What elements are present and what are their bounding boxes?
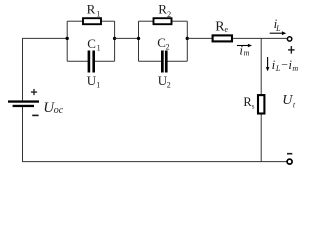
label U_oc bbox=[43, 100, 64, 116]
wire R2 top branch right stub bbox=[172, 20, 187, 22]
current arrow i_L - i_m (downward) bbox=[266, 57, 270, 71]
battery U_oc bbox=[8, 100, 39, 107]
label Re bbox=[215, 19, 228, 34]
battery minus sign bbox=[32, 115, 38, 117]
svg-text:m: m bbox=[292, 64, 298, 73]
svg-text:C: C bbox=[87, 36, 96, 51]
wire C1 bottom branch left stub bbox=[67, 60, 88, 62]
label Rs bbox=[243, 95, 254, 111]
svg-text:U: U bbox=[87, 73, 97, 88]
label i_m bbox=[239, 42, 249, 57]
node: junction dot right of RC group 2 bbox=[186, 37, 189, 40]
resistor R1 bbox=[83, 18, 101, 24]
terminal minus sign bbox=[287, 153, 292, 155]
label U_t bbox=[282, 93, 296, 109]
svg-text:R: R bbox=[158, 1, 167, 16]
battery plus sign bbox=[31, 89, 37, 95]
label i_L bbox=[274, 16, 282, 33]
svg-text:oc: oc bbox=[54, 105, 64, 116]
positive terminal circle bbox=[287, 37, 291, 41]
svg-text:1: 1 bbox=[96, 10, 100, 19]
svg-text:R: R bbox=[87, 1, 96, 16]
wire R1 top branch right stub bbox=[102, 20, 115, 22]
label U2 bbox=[158, 73, 171, 90]
RC group 2 right side bbox=[186, 21, 188, 61]
svg-text:e: e bbox=[225, 25, 229, 34]
wire top-left: main wire from left rail to RC group 1 bbox=[22, 37, 67, 39]
negative terminal circle bbox=[287, 159, 292, 164]
wire C1 bottom branch right stub bbox=[95, 60, 115, 62]
label R1 bbox=[87, 1, 101, 18]
svg-text:1: 1 bbox=[97, 43, 101, 52]
label C1 bbox=[87, 36, 100, 53]
resistor Rs bbox=[258, 95, 264, 113]
resistor Re bbox=[213, 35, 232, 41]
svg-text:1: 1 bbox=[96, 80, 100, 89]
terminal plus sign bbox=[288, 46, 295, 54]
label i_L - i_m bbox=[272, 57, 299, 73]
svg-text:2: 2 bbox=[167, 81, 171, 90]
wire R2 top branch left stub bbox=[139, 20, 154, 22]
svg-text:2: 2 bbox=[166, 43, 170, 52]
capacitor C2 bbox=[161, 51, 168, 73]
wire C2 bottom branch right stub bbox=[168, 60, 188, 62]
node: junction dot right of RC group 1 bbox=[113, 37, 116, 40]
svg-text:s: s bbox=[252, 103, 255, 111]
wire bottom rail bbox=[22, 161, 287, 163]
wire between RC group 2 and Re bbox=[187, 37, 211, 39]
label R2 bbox=[158, 1, 171, 19]
svg-text:C: C bbox=[157, 35, 166, 50]
RC group 2 left side bbox=[138, 21, 140, 61]
wire left rail lower: from battery bottom plate down to bottom wire bbox=[22, 107, 24, 162]
RC group 1 right side bbox=[114, 21, 116, 61]
svg-text:L: L bbox=[275, 24, 281, 33]
svg-text:L: L bbox=[275, 64, 281, 73]
node: junction dot left of RC group 2 bbox=[137, 37, 140, 40]
wire left rail upper: from top wire down to battery top plate bbox=[22, 38, 24, 100]
wire between RC group 1 and RC group 2 bbox=[115, 37, 139, 39]
wire vertical branch lower: from Rs down to bottom rail bbox=[260, 115, 262, 162]
svg-text:−: − bbox=[281, 57, 288, 71]
current arrow i_L bbox=[270, 31, 287, 35]
RC group 1 left side bbox=[66, 21, 68, 61]
current arrow i_m bbox=[237, 44, 252, 48]
svg-text:m: m bbox=[244, 49, 250, 58]
resistor R2 bbox=[154, 18, 172, 24]
capacitor C1 bbox=[88, 51, 95, 73]
node: junction dot left of RC group 1 bbox=[66, 37, 69, 40]
wire from Re to positive terminal bbox=[233, 37, 287, 39]
svg-text:U: U bbox=[282, 93, 293, 108]
wire R1 top branch left stub bbox=[67, 20, 82, 22]
label C2 bbox=[157, 35, 169, 52]
label U1 bbox=[87, 73, 101, 89]
wire vertical branch upper: from main wire down to Rs bbox=[260, 38, 262, 94]
wire C2 bottom branch left stub bbox=[139, 60, 162, 62]
svg-text:2: 2 bbox=[167, 10, 171, 19]
